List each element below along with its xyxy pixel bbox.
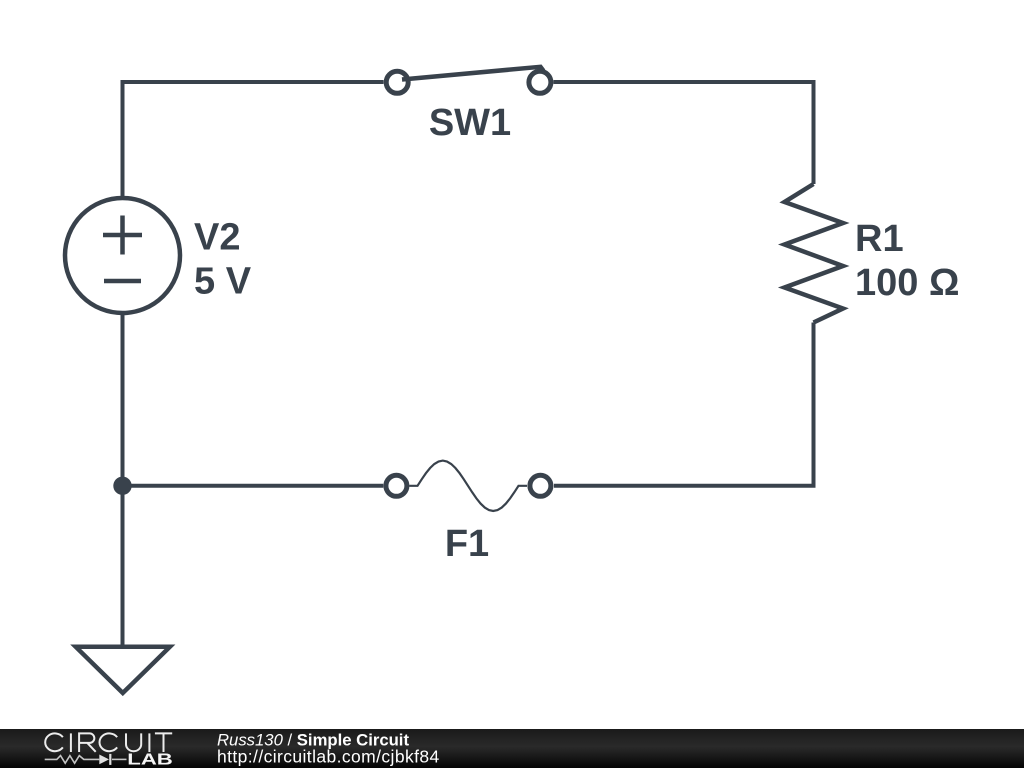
logo resistor-diode line	[45, 756, 127, 764]
voltage source V2	[65, 198, 180, 313]
footer bar	[0, 729, 1024, 768]
svg-text:SW1: SW1	[429, 102, 511, 144]
wire bottom-right: R1 bottom to fuse right terminal	[554, 323, 814, 486]
svg-text:5 V: 5 V	[194, 261, 252, 303]
svg-text:V2: V2	[194, 217, 240, 259]
wire bottom-left: fuse left terminal to junction	[123, 484, 384, 488]
node junction	[113, 477, 131, 495]
svg-text:LAB: LAB	[127, 752, 173, 768]
svg-text:http://circuitlab.com/cjbkf84: http://circuitlab.com/cjbkf84	[217, 747, 440, 767]
ground	[76, 647, 170, 693]
logo CIRCUIT	[45, 733, 172, 752]
wire top-right: switch right terminal to R1 top	[553, 82, 813, 184]
fuse F1	[386, 461, 551, 511]
svg-text:R1: R1	[855, 218, 904, 260]
logo diode	[99, 755, 109, 765]
svg-text:F1: F1	[445, 523, 489, 565]
svg-text:100 Ω: 100 Ω	[855, 262, 959, 304]
wire top-left: V2 top to switch left terminal	[123, 82, 384, 199]
resistor R1	[785, 184, 844, 323]
wire left: V2 bottom to ground	[121, 313, 125, 647]
switch SW1	[386, 67, 551, 94]
